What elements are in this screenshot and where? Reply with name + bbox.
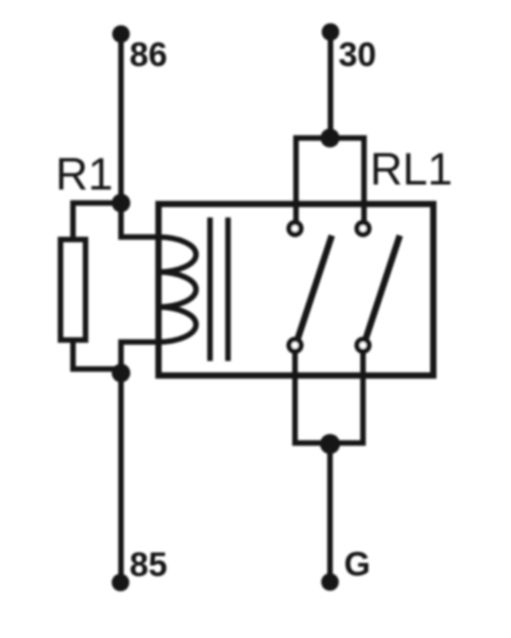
wire node D to terminal G xyxy=(327,444,333,582)
contact pin top left xyxy=(289,223,301,235)
relay body RL1 xyxy=(159,204,434,376)
relay coil L1 xyxy=(158,237,196,342)
node C (junction feeding both contacts) xyxy=(321,129,340,148)
wire right contact to node D xyxy=(330,353,363,444)
svg-text:30: 30 xyxy=(339,36,377,74)
wire 86 to node A xyxy=(118,34,124,203)
contact pin bottom right xyxy=(357,339,369,351)
label R1 xyxy=(56,149,114,200)
wire node A to resistor top xyxy=(73,203,121,241)
wire 30 to node C xyxy=(328,32,334,138)
terminal 30 xyxy=(322,23,340,41)
node B (junction of R1, coil, 85) xyxy=(112,364,131,383)
label RL1 xyxy=(370,144,453,195)
terminal 86 xyxy=(112,25,130,43)
svg-text:G: G xyxy=(344,546,370,584)
wire node C to right contact xyxy=(330,138,364,221)
wire coil bottom to node B xyxy=(121,342,158,373)
svg-text:85: 85 xyxy=(130,546,168,584)
terminal G xyxy=(321,573,339,591)
resistor R1 xyxy=(61,240,86,341)
node D (junction of contacts to G) xyxy=(320,434,340,454)
contact pin top right xyxy=(357,223,369,235)
svg-text:86: 86 xyxy=(130,36,168,74)
contact pin bottom left xyxy=(289,339,301,351)
terminal 85 xyxy=(112,574,130,592)
node A (junction of 86, R1, coil) xyxy=(112,194,131,213)
switch blade left xyxy=(297,236,332,341)
svg-text:RL1: RL1 xyxy=(370,144,453,195)
wire node A to coil top xyxy=(121,201,158,237)
label 86 xyxy=(130,36,168,74)
wire left contact to node D xyxy=(295,353,330,444)
label 85 xyxy=(130,546,168,584)
svg-text:R1: R1 xyxy=(56,149,114,200)
relay core xyxy=(210,218,228,362)
label 30 xyxy=(339,36,377,74)
label G xyxy=(344,546,370,584)
wire node B to terminal 85 xyxy=(118,373,124,582)
switch blade right xyxy=(365,236,400,341)
wire resistor bottom to node B xyxy=(73,339,121,369)
wire node C to left contact xyxy=(296,138,330,221)
